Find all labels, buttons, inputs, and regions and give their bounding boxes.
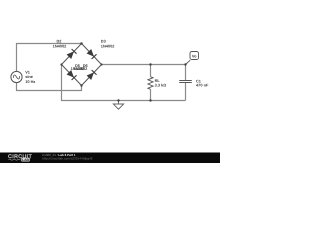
wire resistor RL top lead bbox=[150, 65, 152, 77]
svg-text:3.3 kΩ: 3.3 kΩ bbox=[155, 82, 167, 87]
svg-text:1N4002: 1N4002 bbox=[101, 43, 115, 48]
wire Vo diagonal connector bbox=[186, 60, 191, 64]
CircuitLab logo sine bbox=[9, 159, 21, 160]
svg-text:1N4002: 1N4002 bbox=[74, 66, 88, 71]
resistor RL bbox=[148, 77, 166, 90]
junction dot ground bbox=[117, 99, 119, 101]
junction dot bridge top bbox=[80, 42, 82, 44]
wire bridge right corner to output node bbox=[102, 64, 186, 66]
wire resistor RL bottom lead bbox=[150, 89, 152, 100]
svg-text:470 nF: 470 nF bbox=[196, 82, 209, 87]
ground bbox=[113, 101, 123, 110]
junction dot RL top bbox=[149, 63, 151, 65]
wire top rail from V1 to bridge top bbox=[17, 44, 82, 72]
wire capacitor C1 bottom lead bbox=[185, 83, 187, 101]
svg-text:10 Hz: 10 Hz bbox=[25, 79, 35, 84]
diode D5 lower-left bbox=[66, 63, 85, 80]
junction dot bridge left bbox=[60, 63, 62, 65]
junction dot RL bottom bbox=[149, 99, 151, 101]
diode D3 upper-right bbox=[86, 39, 115, 59]
wire V1 bottom to bridge bottom corner bbox=[17, 83, 82, 91]
capacitor C1 bbox=[179, 78, 209, 87]
wire bridge left corner down to ground rail bbox=[62, 65, 186, 101]
node Vo bbox=[190, 52, 199, 60]
diode D2 upper-left bbox=[53, 39, 77, 59]
svg-text:1N4002: 1N4002 bbox=[53, 43, 67, 48]
voltage source V1 bbox=[11, 70, 36, 84]
svg-text:http://circuitlab.com/c2325445: http://circuitlab.com/c2325445fpg42 bbox=[42, 157, 92, 161]
junction dot bridge right bbox=[100, 63, 102, 65]
diode D6 lower-right bbox=[74, 63, 97, 80]
wire capacitor C1 top lead bbox=[185, 65, 187, 81]
bridge diamond edges bbox=[62, 44, 102, 86]
svg-text:LAB: LAB bbox=[22, 158, 30, 162]
CircuitLab logo LAB box bbox=[21, 158, 29, 162]
junction dot bridge bottom bbox=[80, 84, 82, 86]
junction dot Vo bbox=[184, 63, 186, 65]
svg-text:Vo: Vo bbox=[192, 53, 197, 58]
CircuitLab watermark bar bbox=[0, 153, 220, 164]
